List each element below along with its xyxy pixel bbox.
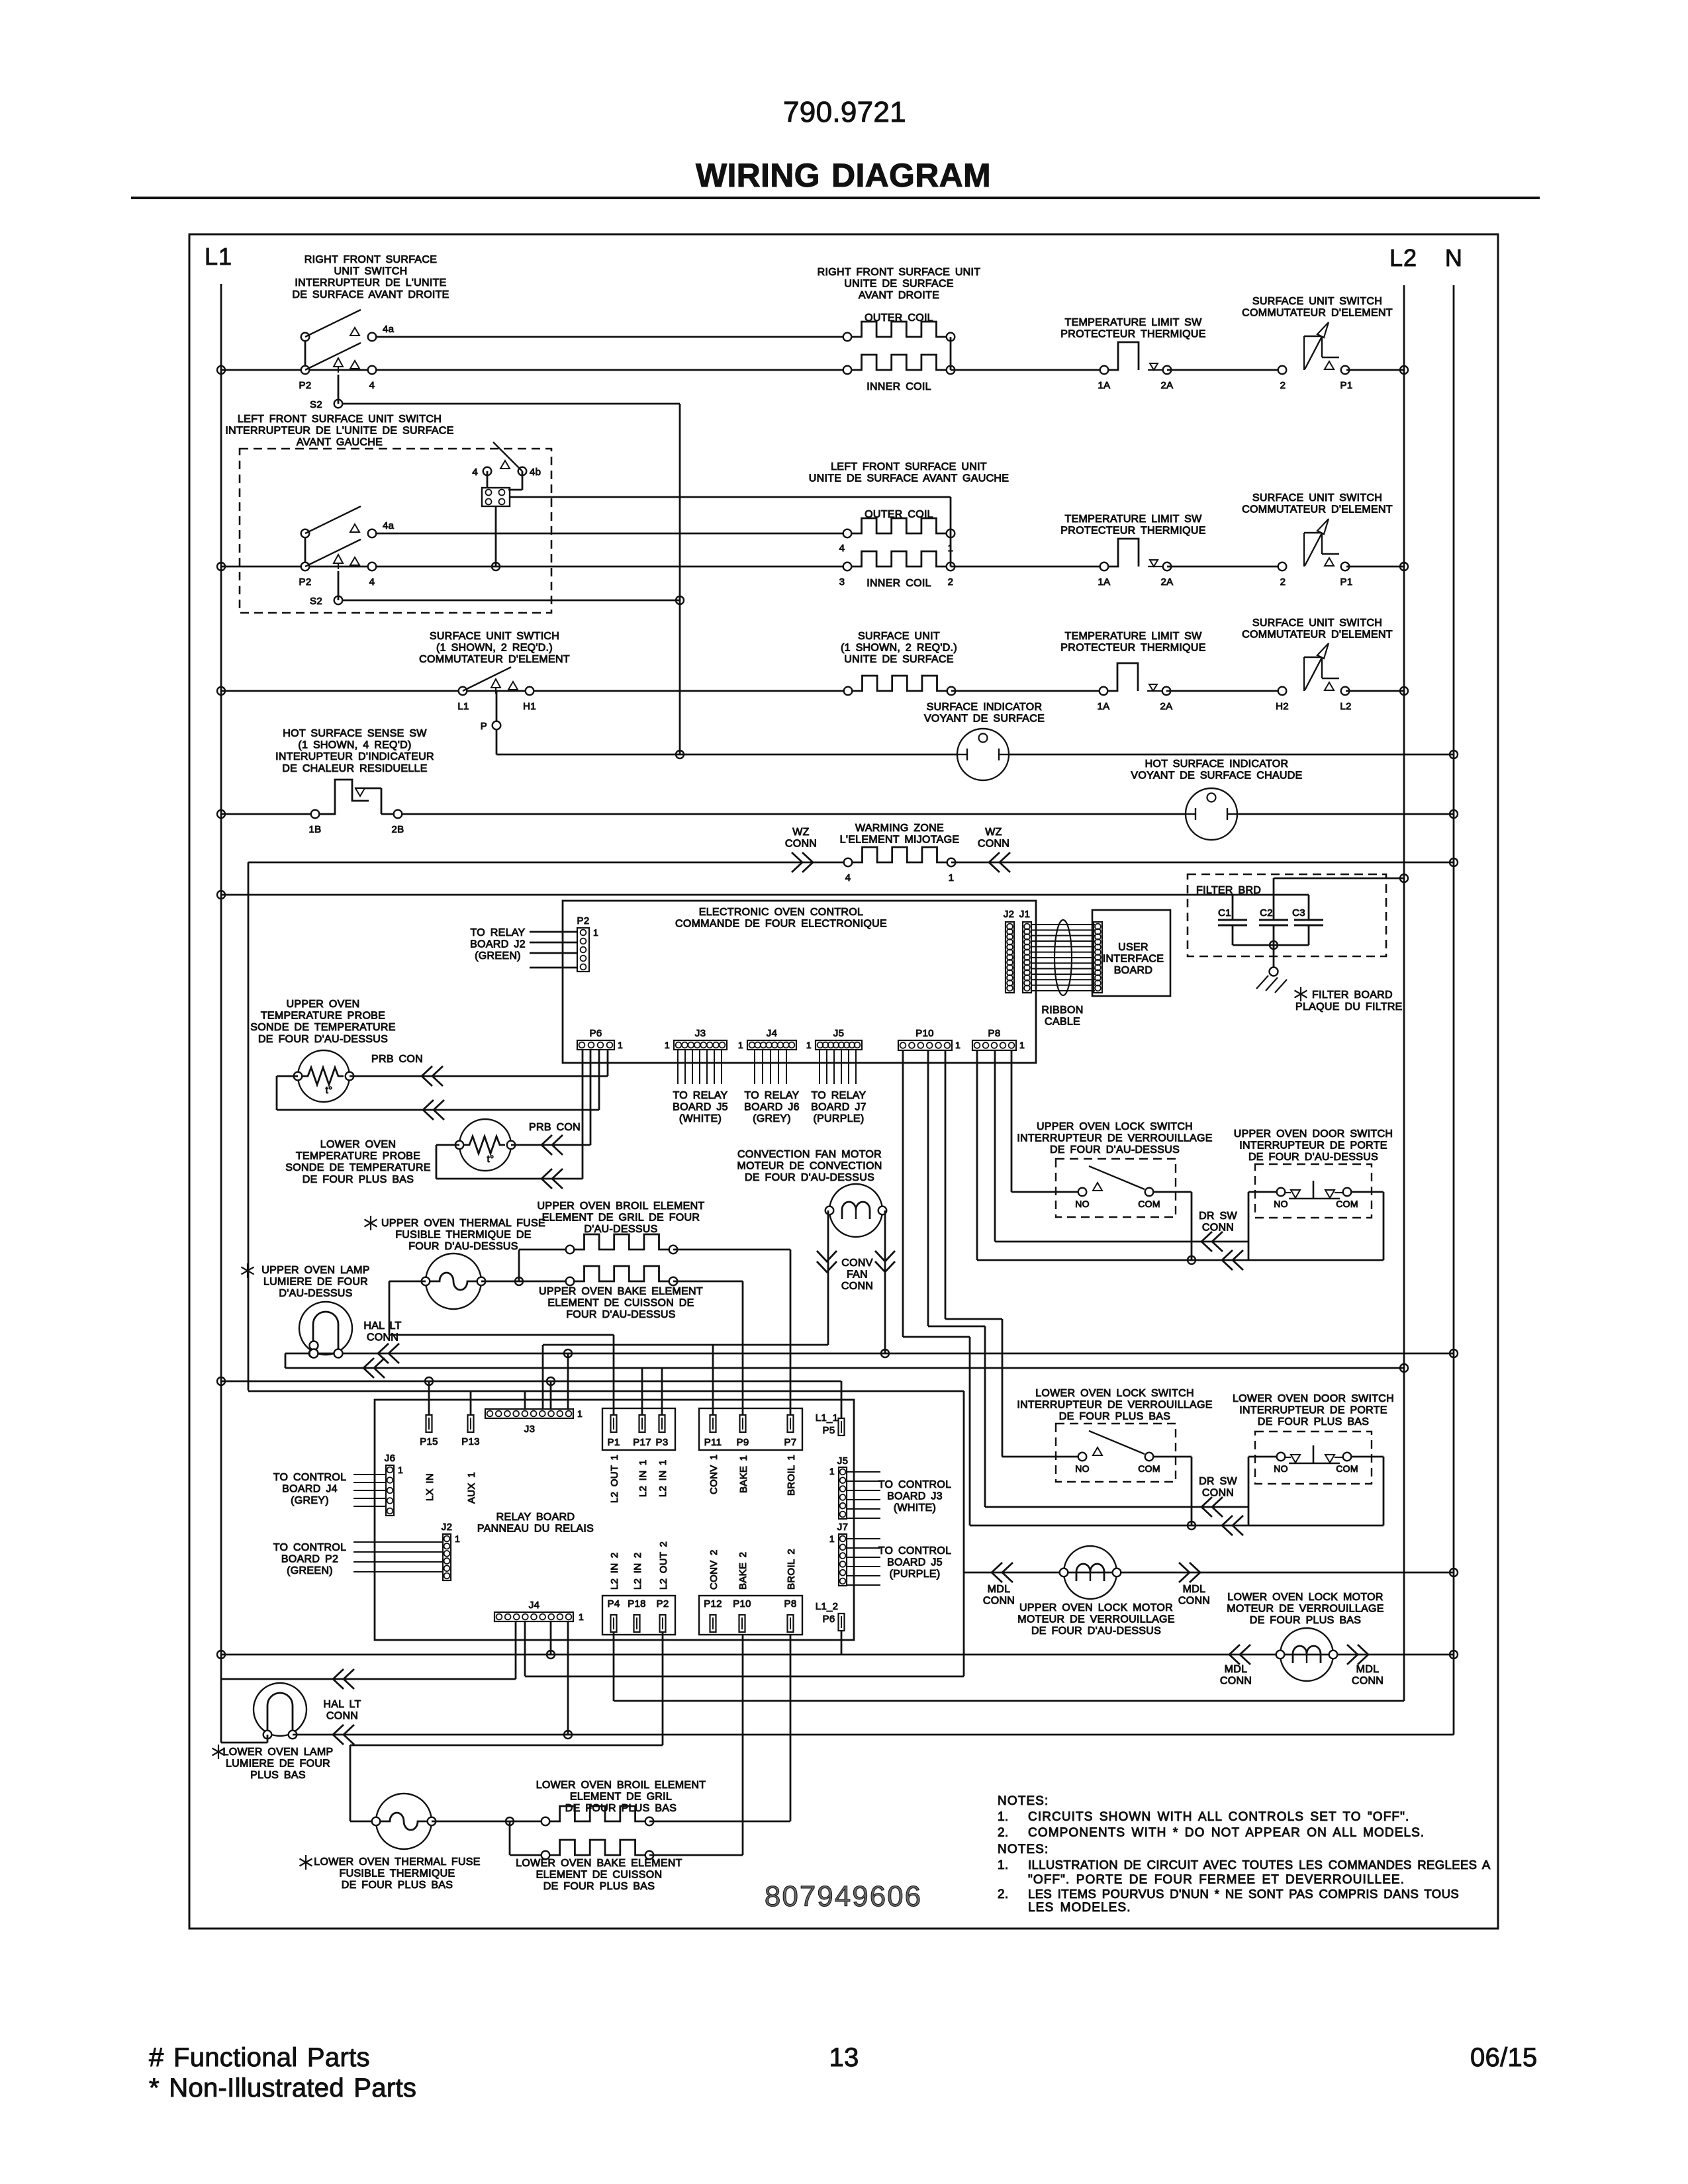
svg-text:CABLE: CABLE — [1045, 1017, 1080, 1028]
switch upper oven lock — [1078, 1188, 1087, 1197]
svg-text:1: 1 — [955, 1040, 961, 1050]
svg-text:(GREY): (GREY) — [753, 1113, 791, 1124]
label lower oven lamp — [218, 1745, 219, 1759]
component lower oven thermal fuse — [376, 1794, 432, 1849]
svg-text:NOTES:: NOTES: — [998, 1794, 1049, 1808]
component lower oven temperature probe — [459, 1119, 511, 1171]
svg-text:LOWER OVEN DOOR SWITCH: LOWER OVEN DOOR SWITCH — [1233, 1393, 1394, 1404]
component upper oven temperature probe — [298, 1050, 350, 1102]
wires J4 EOC stubs — [754, 1050, 755, 1084]
svg-text:MOTEUR DE VERROUILLAGE: MOTEUR DE VERROUILLAGE — [1017, 1614, 1175, 1625]
svg-text:INNER COIL: INNER COIL — [867, 578, 931, 589]
svg-text:NO: NO — [1075, 1463, 1090, 1474]
svg-text:CONN: CONN — [983, 1596, 1015, 1607]
connector block P1 P17 P3 — [602, 1408, 675, 1450]
motor upper oven lock — [1064, 1546, 1117, 1599]
wire row2 to temp limit — [951, 566, 1104, 568]
svg-text:BROIL 1: BROIL 1 — [786, 1455, 797, 1496]
svg-text:AVANT GAUCHE: AVANT GAUCHE — [297, 437, 383, 448]
board electronic oven control — [563, 901, 1036, 1063]
svg-text:RIBBON: RIBBON — [1041, 1005, 1083, 1016]
element lower oven bake — [549, 1840, 645, 1855]
svg-text:L2 IN 1: L2 IN 1 — [637, 1460, 649, 1497]
wire lower broil to P8 — [649, 1821, 790, 1823]
svg-text:2: 2 — [1280, 576, 1286, 588]
svg-text:TO RELAY: TO RELAY — [744, 1090, 799, 1101]
svg-text:INTERRUPTEUR DE L'UNITE: INTERRUPTEUR DE L'UNITE — [295, 277, 446, 289]
svg-text:1: 1 — [829, 1466, 835, 1477]
connector DR SW CONN lower 1 — [1201, 1497, 1212, 1517]
svg-text:COM: COM — [1336, 1463, 1358, 1474]
switch S left-front pivots — [305, 533, 306, 567]
wire upper DR SW line 1 — [994, 1050, 996, 1242]
svg-text:LES ITEMS POURVUS D'NUN * NE S: LES ITEMS POURVUS D'NUN * NE SONT PAS CO… — [1028, 1887, 1459, 1901]
svg-text:NO: NO — [1274, 1199, 1288, 1209]
svg-text:CONN: CONN — [978, 839, 1009, 850]
svg-text:1A: 1A — [1098, 380, 1111, 391]
connector MDL CONN lower left — [1229, 1645, 1240, 1664]
junction L2 row1 — [1400, 366, 1408, 374]
wires J3 EOC stubs — [677, 1050, 679, 1084]
svg-text:(GREEN): (GREEN) — [475, 950, 521, 962]
svg-text:1: 1 — [579, 1612, 584, 1622]
contact 4a row2 — [368, 529, 377, 538]
svg-text:VOYANT DE SURFACE CHAUDE: VOYANT DE SURFACE CHAUDE — [1131, 770, 1302, 782]
svg-text:BROIL 2: BROIL 2 — [786, 1549, 797, 1590]
svg-text:WARMING ZONE: WARMING ZONE — [855, 823, 944, 834]
svg-text:t°: t° — [326, 1085, 333, 1096]
wire row3 to temp limit — [951, 690, 1103, 692]
svg-text:TO CONTROL: TO CONTROL — [878, 1479, 952, 1490]
junction P bus — [676, 751, 684, 758]
wire lower bake to P10 — [649, 1854, 743, 1856]
svg-text:P17: P17 — [633, 1437, 651, 1448]
svg-text:BOARD P2: BOARD P2 — [281, 1554, 338, 1565]
wire S2 row1 to bus — [338, 375, 340, 404]
label upper oven lamp — [247, 1263, 248, 1278]
svg-text:LOWER OVEN BROIL ELEMENT: LOWER OVEN BROIL ELEMENT — [536, 1780, 706, 1791]
svg-text:CONV 1: CONV 1 — [708, 1454, 720, 1494]
wire upper broil to P7 — [673, 1249, 790, 1251]
svg-text:PROTECTEUR THERMIQUE: PROTECTEUR THERMIQUE — [1060, 643, 1205, 654]
svg-text:UPPER OVEN BROIL ELEMENT: UPPER OVEN BROIL ELEMENT — [538, 1201, 705, 1212]
svg-text:DR SW: DR SW — [1199, 1476, 1237, 1487]
svg-text:P5: P5 — [823, 1425, 835, 1436]
wire P8 to upper lock NO — [1011, 1050, 1013, 1192]
wires J5 to control board — [847, 1471, 880, 1473]
svg-text:1: 1 — [738, 1040, 743, 1050]
svg-text:13: 13 — [829, 2043, 859, 2072]
svg-text:LOWER OVEN LOCK SWITCH: LOWER OVEN LOCK SWITCH — [1035, 1388, 1194, 1399]
contact 4a row1 — [368, 333, 377, 341]
svg-text:H1: H1 — [523, 701, 536, 712]
svg-text:1A: 1A — [1098, 701, 1110, 712]
svg-text:06/15: 06/15 — [1470, 2043, 1538, 2072]
svg-text:2A: 2A — [1161, 380, 1174, 391]
svg-text:COMMUTATEUR D'ELEMENT: COMMUTATEUR D'ELEMENT — [1242, 629, 1393, 641]
svg-text:LOWER OVEN LOCK MOTOR: LOWER OVEN LOCK MOTOR — [1227, 1592, 1383, 1603]
svg-text:FOUR D'AU-DESSUS: FOUR D'AU-DESSUS — [566, 1309, 676, 1320]
svg-text:CIRCUITS SHOWN WITH ALL CONTRO: CIRCUITS SHOWN WITH ALL CONTROLS SET TO … — [1028, 1810, 1409, 1824]
wire P10 to lower lock NO — [945, 1050, 947, 1319]
svg-text:(WHITE): (WHITE) — [679, 1113, 722, 1124]
svg-text:SONDE DE TEMPERATURE: SONDE DE TEMPERATURE — [285, 1162, 430, 1173]
svg-text:(WHITE): (WHITE) — [894, 1502, 936, 1514]
element upper oven broil — [574, 1234, 669, 1250]
svg-text:INTERRUPTEUR DE VERROUILLAGE: INTERRUPTEUR DE VERROUILLAGE — [1017, 1400, 1212, 1411]
svg-text:ELEMENT DE GRIL: ELEMENT DE GRIL — [570, 1792, 672, 1803]
wire filter common to ground — [1273, 945, 1275, 967]
svg-text:BOARD J2: BOARD J2 — [470, 939, 526, 950]
svg-text:INTERRUPTEUR DE VERROUILLAGE: INTERRUPTEUR DE VERROUILLAGE — [1017, 1133, 1212, 1144]
svg-text:MOTEUR DE VERROUILLAGE: MOTEUR DE VERROUILLAGE — [1227, 1604, 1384, 1615]
wire upper door COM down — [1352, 1191, 1383, 1193]
svg-text:INTERFACE: INTERFACE — [1103, 954, 1164, 965]
svg-text:SURFACE UNIT SWITCH: SURFACE UNIT SWITCH — [1252, 617, 1382, 629]
junction N row4 — [1450, 810, 1458, 818]
svg-text:L2 IN 1: L2 IN 1 — [657, 1460, 669, 1497]
wire L1 to filter caps — [221, 894, 1309, 896]
svg-text:P10: P10 — [733, 1598, 751, 1610]
svg-text:DE FOUR PLUS BAS: DE FOUR PLUS BAS — [303, 1174, 414, 1185]
connector DR SW CONN upper 2 — [1222, 1250, 1233, 1270]
svg-text:4: 4 — [845, 872, 851, 884]
wire N distribution line through lamp terminals — [285, 1353, 1454, 1355]
svg-text:4b: 4b — [530, 467, 541, 478]
svg-text:PANNEAU DU RELAIS: PANNEAU DU RELAIS — [477, 1524, 594, 1535]
switch surface unit row2 — [1278, 563, 1287, 571]
element surface unit coil row3 — [852, 676, 947, 691]
junction L2 row2 — [1400, 563, 1408, 570]
connector block P12 P10 P8 — [699, 1596, 802, 1635]
lamp surface indicator — [957, 729, 1009, 780]
svg-text:2: 2 — [1280, 380, 1286, 391]
svg-text:DE FOUR D'AU-DESSUS: DE FOUR D'AU-DESSUS — [745, 1172, 874, 1183]
connector PRB CON lower — [541, 1135, 552, 1155]
wire row2 to switch — [1167, 566, 1283, 568]
svg-text:MDL: MDL — [988, 1584, 1011, 1595]
svg-text:P8: P8 — [988, 1028, 1001, 1039]
svg-text:TO CONTROL: TO CONTROL — [878, 1545, 952, 1557]
wire row1 main line — [221, 369, 847, 371]
junction lower lock COM door line — [1188, 1522, 1196, 1529]
wire warming zone to N — [951, 862, 1454, 864]
svg-text:WZ: WZ — [985, 827, 1002, 838]
label upper oven thermal fuse — [370, 1216, 371, 1230]
svg-text:BOARD J5: BOARD J5 — [887, 1557, 943, 1569]
junction S2 bus row2 — [676, 596, 684, 604]
svg-text:UNITE DE SURFACE: UNITE DE SURFACE — [844, 279, 954, 290]
connector MDL CONN upper left — [992, 1563, 1002, 1582]
svg-text:J5: J5 — [833, 1028, 844, 1039]
svg-text:PLUS BAS: PLUS BAS — [250, 1770, 306, 1781]
svg-text:TEMPERATURE LIMIT SW: TEMPERATURE LIMIT SW — [1065, 317, 1203, 328]
wire L1 rail — [220, 284, 222, 1678]
svg-text:COM: COM — [1138, 1199, 1160, 1209]
wire lower probe loop to P6 pin1 — [436, 1144, 459, 1146]
svg-text:TO RELAY: TO RELAY — [811, 1090, 866, 1101]
wire row3 main line — [221, 690, 848, 692]
thermal limit switch row3 — [1100, 687, 1108, 696]
svg-text:INTERRUPTEUR DE L'UNITE DE SUR: INTERRUPTEUR DE L'UNITE DE SURFACE — [225, 426, 453, 437]
svg-text:COMMANDE DE FOUR ELECTRONIQUE: COMMANDE DE FOUR ELECTRONIQUE — [675, 919, 887, 930]
svg-text:UPPER OVEN: UPPER OVEN — [287, 999, 360, 1010]
wire L2 rail to P4 L2 IN 2 — [613, 1632, 615, 1701]
svg-text:PROTECTEUR THERMIQUE: PROTECTEUR THERMIQUE — [1060, 329, 1205, 340]
connector WZ right — [989, 852, 1000, 872]
wire upper DR SW line 2 — [976, 1050, 978, 1260]
svg-text:CONN: CONN — [326, 1711, 358, 1722]
svg-text:PROTECTEUR THERMIQUE: PROTECTEUR THERMIQUE — [1060, 525, 1205, 537]
svg-text:FOUR D'AU-DESSUS: FOUR D'AU-DESSUS — [408, 1241, 518, 1252]
junction L1 row3 — [217, 687, 225, 695]
svg-text:INNER COIL: INNER COIL — [867, 381, 931, 392]
svg-text:P2: P2 — [299, 576, 312, 588]
svg-text:UPPER OVEN THERMAL FUSE: UPPER OVEN THERMAL FUSE — [381, 1218, 545, 1229]
svg-text:1: 1 — [806, 1040, 812, 1050]
wire lower DR SW line 1 — [927, 1050, 929, 1326]
svg-text:FILTER BOARD: FILTER BOARD — [1312, 989, 1393, 1001]
wire L1 line2 to P13 J3 and upper lock motor — [248, 1390, 964, 1392]
svg-text:L2: L2 — [1389, 244, 1417, 271]
svg-text:L2 IN 2: L2 IN 2 — [632, 1553, 643, 1590]
svg-text:MDL: MDL — [1183, 1584, 1206, 1595]
switch surface unit row3 left — [459, 687, 467, 696]
wires J7 to control board — [847, 1538, 880, 1539]
svg-text:P2: P2 — [299, 380, 312, 391]
junction L1 row1 — [217, 366, 225, 374]
board user interface — [1092, 910, 1170, 996]
wires P2 EOC to relay J2 — [530, 931, 577, 933]
junction N upper lock motor — [1450, 1569, 1458, 1576]
svg-text:LOWER OVEN: LOWER OVEN — [320, 1139, 396, 1150]
svg-text:# Functional Parts: # Functional Parts — [149, 2043, 370, 2072]
wire 4 to block — [487, 471, 489, 488]
svg-text:J5: J5 — [837, 1455, 848, 1467]
wire upper door NO — [1248, 1191, 1276, 1193]
svg-text:TEMPERATURE PROBE: TEMPERATURE PROBE — [296, 1151, 420, 1162]
svg-text:1: 1 — [1019, 1040, 1025, 1050]
svg-text:1: 1 — [577, 1408, 583, 1419]
svg-text:NO: NO — [1274, 1463, 1288, 1474]
svg-text:2: 2 — [948, 576, 954, 588]
svg-text:HAL LT: HAL LT — [363, 1320, 401, 1332]
connector block P11 P9 P7 — [699, 1408, 802, 1450]
svg-text:1: 1 — [618, 1040, 623, 1050]
junction L1 row2 — [217, 563, 225, 570]
svg-text:UPPER OVEN LAMP: UPPER OVEN LAMP — [261, 1265, 369, 1276]
wire fuse to elements junction — [432, 1821, 545, 1823]
svg-text:CONN: CONN — [1352, 1676, 1383, 1687]
svg-text:L1: L1 — [205, 243, 232, 270]
svg-text:BOARD J3: BOARD J3 — [887, 1491, 943, 1502]
svg-text:CONN: CONN — [841, 1281, 873, 1292]
svg-text:ELEMENT DE CUISSON: ELEMENT DE CUISSON — [536, 1870, 663, 1881]
svg-text:C2: C2 — [1260, 907, 1273, 919]
svg-text:3: 3 — [839, 576, 845, 588]
svg-text:LUMIERE DE FOUR: LUMIERE DE FOUR — [226, 1758, 330, 1770]
svg-text:P: P — [481, 721, 487, 732]
switch surface unit row1 — [1278, 366, 1287, 375]
element inner coil row1 — [851, 355, 947, 370]
svg-text:SURFACE INDICATOR: SURFACE INDICATOR — [927, 702, 1043, 713]
junction N warming zone — [1450, 858, 1458, 866]
svg-text:LOWER OVEN THERMAL FUSE: LOWER OVEN THERMAL FUSE — [314, 1856, 481, 1868]
svg-text:HOT SURFACE INDICATOR: HOT SURFACE INDICATOR — [1145, 758, 1289, 770]
svg-text:S2: S2 — [310, 399, 322, 410]
wire conv fan right to N line — [884, 1210, 886, 1353]
wire J4 pin4 to lock motor riser — [524, 1621, 526, 1676]
svg-text:790.9721: 790.9721 — [783, 96, 906, 128]
diagram border frame — [189, 234, 1498, 1929]
connector conv fan conn right — [875, 1261, 895, 1272]
wire HAL LT line to J4 pin3 — [221, 1678, 516, 1680]
svg-text:P1: P1 — [1340, 576, 1353, 588]
svg-text:L1_1: L1_1 — [816, 1412, 839, 1424]
svg-text:1: 1 — [398, 1465, 403, 1475]
svg-text:BOARD J6: BOARD J6 — [744, 1102, 800, 1113]
connector conv fan conn left — [817, 1261, 837, 1272]
svg-text:4a: 4a — [383, 324, 395, 335]
svg-text:VOYANT DE SURFACE: VOYANT DE SURFACE — [924, 713, 1045, 725]
board relay board — [375, 1400, 854, 1640]
svg-text:MDL: MDL — [1356, 1664, 1380, 1675]
svg-text:CONN: CONN — [785, 839, 817, 850]
wire upper probe top to P6 pin4 — [350, 1075, 608, 1077]
lamp lower oven — [254, 1683, 306, 1736]
svg-text:P13: P13 — [461, 1436, 480, 1447]
svg-text:CONN: CONN — [1202, 1488, 1234, 1499]
svg-text:DE FOUR D'AU-DESSUS: DE FOUR D'AU-DESSUS — [1050, 1144, 1180, 1156]
svg-text:BOARD: BOARD — [1114, 965, 1152, 976]
wire P to indicator line — [496, 730, 498, 754]
ribbon cable — [1031, 924, 1095, 925]
svg-text:SONDE DE TEMPERATURE: SONDE DE TEMPERATURE — [250, 1022, 395, 1033]
svg-text:1: 1 — [829, 1533, 835, 1544]
wire L1 to P5 P15 line — [221, 1381, 841, 1383]
svg-text:DR SW: DR SW — [1199, 1210, 1237, 1222]
svg-text:CONN: CONN — [1178, 1596, 1210, 1607]
svg-text:INTERRUPTEUR DE PORTE: INTERRUPTEUR DE PORTE — [1239, 1405, 1387, 1416]
svg-text:4: 4 — [369, 380, 375, 391]
svg-text:COMMUTATEUR D'ELEMENT: COMMUTATEUR D'ELEMENT — [419, 654, 570, 665]
svg-text:FUSIBLE THERMIQUE DE: FUSIBLE THERMIQUE DE — [395, 1230, 532, 1241]
wire row1 to temp limit — [951, 369, 1104, 371]
wires J2 to control board — [353, 1541, 443, 1543]
dashed enclosure lower door switch — [1255, 1432, 1372, 1484]
wire block to main row2 — [495, 506, 497, 567]
contact 4 row1 — [368, 366, 377, 375]
svg-text:MOTEUR DE CONVECTION: MOTEUR DE CONVECTION — [737, 1161, 882, 1172]
wire lower door COM down — [1352, 1456, 1383, 1458]
svg-text:PLAQUE DU FILTRE: PLAQUE DU FILTRE — [1295, 1001, 1403, 1013]
element inner coil row2 — [851, 551, 947, 567]
wire capacitor commons — [1232, 925, 1234, 945]
wire lower probe top to P6 pin2 — [511, 1144, 590, 1146]
svg-text:DE FOUR PLUS BAS: DE FOUR PLUS BAS — [543, 1881, 655, 1892]
component upper oven thermal fuse — [426, 1253, 481, 1309]
svg-text:4a: 4a — [383, 520, 395, 531]
svg-text:UNIT SWITCH: UNIT SWITCH — [334, 266, 408, 277]
contact P row3 — [496, 691, 498, 721]
svg-text:(PURPLE): (PURPLE) — [889, 1569, 940, 1580]
svg-text:DE SURFACE AVANT DROITE: DE SURFACE AVANT DROITE — [292, 289, 449, 300]
svg-text:P6: P6 — [590, 1028, 602, 1039]
svg-text:SURFACE UNIT SWITCH: SURFACE UNIT SWITCH — [1252, 492, 1382, 504]
svg-text:FAN: FAN — [847, 1269, 868, 1281]
svg-text:DE CHALEUR RESIDUELLE: DE CHALEUR RESIDUELLE — [282, 763, 427, 774]
switch S right-front pivots — [305, 337, 306, 370]
junction N rail feed — [1450, 1349, 1458, 1357]
wire coil link row2 — [950, 497, 952, 567]
junction N surface indicator — [1450, 751, 1458, 758]
connector MDL CONN upper right — [1190, 1563, 1200, 1582]
svg-text:4: 4 — [472, 467, 478, 478]
svg-text:UPPER OVEN DOOR SWITCH: UPPER OVEN DOOR SWITCH — [1234, 1128, 1393, 1140]
junction conv fan N — [881, 1349, 889, 1357]
svg-text:P9: P9 — [737, 1437, 749, 1448]
svg-text:BOARD J4: BOARD J4 — [282, 1484, 338, 1495]
svg-text:L'ELEMENT MIJOTAGE: L'ELEMENT MIJOTAGE — [840, 835, 960, 846]
lamp upper oven — [299, 1302, 352, 1355]
wire upper lock motor line — [964, 1572, 1454, 1574]
svg-text:(GREEN): (GREEN) — [287, 1565, 333, 1576]
svg-text:1: 1 — [665, 1040, 670, 1050]
svg-text:TO RELAY: TO RELAY — [673, 1090, 727, 1101]
wire lower lock COM down — [1154, 1456, 1192, 1458]
switch lower oven door — [1277, 1453, 1286, 1461]
switch upper oven door — [1277, 1188, 1286, 1197]
svg-text:P6: P6 — [823, 1614, 835, 1625]
ground chassis filter board — [1270, 968, 1278, 976]
svg-text:P3: P3 — [656, 1437, 669, 1448]
svg-text:RIGHT FRONT SURFACE: RIGHT FRONT SURFACE — [305, 254, 437, 265]
svg-text:J2: J2 — [442, 1522, 452, 1533]
connector DR SW CONN lower 2 — [1222, 1516, 1233, 1535]
svg-text:N: N — [1445, 244, 1462, 271]
label lower oven thermal fuse — [305, 1855, 306, 1870]
wire lower door NO — [1248, 1456, 1276, 1458]
svg-text:(1 SHOWN, 4 REQ'D): (1 SHOWN, 4 REQ'D) — [298, 740, 411, 751]
svg-text:1: 1 — [455, 1533, 460, 1544]
svg-text:1: 1 — [593, 927, 598, 938]
svg-text:J6: J6 — [385, 1453, 395, 1464]
wire 4b to block — [522, 471, 524, 490]
svg-text:P1: P1 — [1340, 380, 1353, 391]
svg-text:MDL: MDL — [1225, 1664, 1248, 1675]
svg-text:COMMUTATEUR D'ELEMENT: COMMUTATEUR D'ELEMENT — [1242, 308, 1393, 319]
svg-text:2A: 2A — [1160, 701, 1173, 712]
svg-text:FUSIBLE THERMIQUE: FUSIBLE THERMIQUE — [340, 1868, 455, 1880]
junction L1 row4 — [217, 810, 225, 818]
svg-text:UPPER OVEN LOCK SWITCH: UPPER OVEN LOCK SWITCH — [1037, 1121, 1193, 1132]
svg-text:DE FOUR D'AU-DESSUS: DE FOUR D'AU-DESSUS — [1248, 1152, 1378, 1163]
svg-text:BAKE 1: BAKE 1 — [738, 1455, 749, 1493]
svg-text:J2 J1: J2 J1 — [1004, 909, 1030, 920]
svg-text:(GREY): (GREY) — [291, 1495, 329, 1506]
svg-text:COMMUTATEUR D'ELEMENT: COMMUTATEUR D'ELEMENT — [1242, 504, 1393, 516]
svg-text:2.: 2. — [998, 1888, 1008, 1901]
junction block row2 — [492, 563, 500, 570]
svg-text:807949606: 807949606 — [765, 1880, 922, 1913]
svg-text:LEFT FRONT SURFACE UNIT: LEFT FRONT SURFACE UNIT — [831, 461, 987, 473]
element lower oven broil — [549, 1806, 645, 1821]
switch surface unit row3 right — [1278, 687, 1287, 696]
svg-text:(PURPLE): (PURPLE) — [813, 1113, 864, 1124]
wire L2 distribution line — [285, 1353, 287, 1368]
svg-text:1A: 1A — [1098, 576, 1111, 588]
svg-text:RELAY BOARD: RELAY BOARD — [496, 1512, 575, 1523]
